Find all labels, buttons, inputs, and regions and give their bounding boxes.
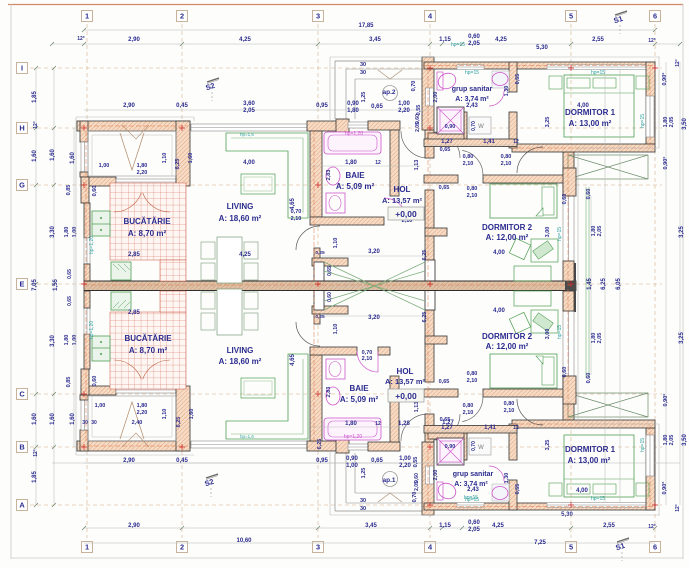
svg-text:2,20: 2,20 [137, 410, 148, 416]
svg-text:W: W [478, 124, 484, 130]
svg-text:A: 13,57 m²: A: 13,57 m² [382, 196, 423, 205]
svg-text:4,65: 4,65 [290, 354, 296, 366]
svg-text:17,85: 17,85 [358, 23, 374, 29]
svg-text:1,25: 1,25 [361, 92, 367, 103]
svg-text:0,65: 0,65 [327, 266, 333, 276]
svg-text:12°: 12° [675, 504, 681, 512]
svg-text:LIVING: LIVING [227, 346, 254, 355]
svg-text:2,90: 2,90 [128, 37, 140, 43]
svg-text:0,25: 0,25 [315, 250, 325, 256]
svg-text:A: 3,74 m²: A: 3,74 m² [455, 96, 489, 103]
svg-text:2: 2 [180, 12, 184, 21]
svg-text:0,60: 0,60 [586, 189, 592, 200]
svg-text:0,70: 0,70 [471, 121, 477, 131]
svg-text:3,45: 3,45 [369, 37, 381, 43]
svg-text:1,10: 1,10 [162, 153, 168, 164]
svg-text:0,55: 0,55 [413, 457, 419, 468]
svg-text:1,00: 1,00 [95, 403, 106, 409]
svg-text:12°: 12° [77, 36, 85, 42]
svg-text:2,05: 2,05 [415, 122, 421, 132]
svg-text:30: 30 [360, 506, 366, 512]
svg-text:6,25: 6,25 [422, 250, 428, 261]
svg-text:12°: 12° [648, 38, 656, 44]
svg-text:1,10: 1,10 [162, 409, 168, 420]
svg-text:0,90°: 0,90° [662, 73, 668, 86]
svg-text:0,85: 0,85 [66, 185, 72, 196]
svg-text:1,45: 1,45 [587, 278, 593, 290]
svg-text:1,00: 1,00 [398, 101, 410, 107]
svg-text:2,90: 2,90 [123, 458, 135, 464]
svg-text:A: 8,70 m²: A: 8,70 m² [129, 346, 168, 355]
svg-text:0,55: 0,55 [515, 74, 521, 85]
svg-text:3,20: 3,20 [368, 315, 380, 321]
svg-text:2,00: 2,00 [433, 470, 439, 481]
svg-text:1,55: 1,55 [53, 279, 59, 291]
svg-text:1,27: 1,27 [441, 139, 453, 145]
svg-text:hp=15: hp=15 [640, 438, 646, 452]
svg-text:30: 30 [360, 498, 366, 504]
svg-text:4,00: 4,00 [493, 250, 505, 256]
svg-text:3,00: 3,00 [545, 329, 551, 340]
svg-text:3,25: 3,25 [545, 117, 551, 128]
svg-text:2,05: 2,05 [669, 435, 675, 446]
svg-text:0,90°: 0,90° [663, 157, 669, 170]
svg-text:0,60: 0,60 [92, 376, 98, 387]
svg-text:3,00: 3,00 [545, 227, 551, 238]
svg-text:1,60: 1,60 [70, 152, 76, 164]
svg-text:12: 12 [513, 139, 519, 145]
svg-text:1,00: 1,00 [399, 456, 411, 462]
svg-text:2,10: 2,10 [463, 410, 474, 416]
svg-text:+0,00: +0,00 [395, 209, 417, 219]
svg-text:12°: 12° [33, 449, 39, 457]
svg-text:hp=15: hp=15 [451, 42, 465, 48]
svg-text:A: 12,00 m²: A: 12,00 m² [486, 342, 529, 351]
svg-text:4,25: 4,25 [492, 523, 504, 529]
svg-text:2,10: 2,10 [362, 356, 373, 362]
svg-text:6,05: 6,05 [616, 278, 622, 290]
svg-text:1,80: 1,80 [137, 403, 148, 409]
svg-text:HOL: HOL [394, 185, 411, 194]
svg-text:0,90°: 0,90° [662, 482, 668, 495]
svg-text:hp=1,6: hp=1,6 [240, 132, 254, 137]
svg-text:1: 1 [85, 12, 89, 21]
svg-text:2,05: 2,05 [597, 333, 603, 344]
svg-text:A: 13,57 m²: A: 13,57 m² [385, 377, 426, 386]
svg-text:A: 18,60 m²: A: 18,60 m² [219, 357, 262, 366]
svg-text:2,20: 2,20 [399, 463, 411, 469]
svg-text:2,20: 2,20 [398, 108, 410, 114]
svg-text:1,15: 1,15 [439, 523, 451, 529]
svg-text:3,45: 3,45 [365, 523, 377, 529]
svg-text:2,10: 2,10 [504, 408, 515, 414]
svg-text:1,80: 1,80 [64, 227, 70, 238]
svg-text:0,60: 0,60 [468, 520, 480, 526]
svg-text:hp=1,20: hp=1,20 [345, 131, 363, 137]
svg-text:ap.1: ap.1 [382, 477, 395, 484]
svg-text:C: C [19, 390, 25, 399]
svg-text:0,95: 0,95 [316, 103, 328, 109]
svg-text:2,00: 2,00 [433, 92, 439, 103]
svg-text:6: 6 [653, 12, 657, 21]
svg-text:0,65: 0,65 [371, 458, 383, 464]
svg-text:hp=15: hp=15 [557, 227, 563, 241]
svg-text:1,80: 1,80 [64, 335, 70, 346]
svg-text:2,05: 2,05 [414, 481, 420, 491]
svg-text:hp=15: hp=15 [591, 496, 605, 502]
svg-text:2,85: 2,85 [128, 252, 140, 258]
svg-text:A: 12,00 m²: A: 12,00 m² [486, 233, 529, 242]
svg-text:A: 5,09 m²: A: 5,09 m² [340, 395, 379, 404]
svg-text:3,25: 3,25 [545, 440, 551, 451]
svg-text:12: 12 [513, 425, 519, 431]
svg-text:BAIE: BAIE [345, 171, 365, 180]
svg-text:3,60: 3,60 [243, 101, 255, 107]
svg-text:hp=15: hp=15 [557, 325, 563, 339]
svg-text:1,30: 1,30 [504, 86, 510, 97]
svg-text:A: 3,74 m²: A: 3,74 m² [454, 481, 488, 488]
svg-text:0,80: 0,80 [501, 154, 512, 160]
svg-text:G: G [19, 181, 25, 190]
svg-text:1,60: 1,60 [50, 413, 56, 425]
svg-text:0,60: 0,60 [92, 186, 98, 197]
svg-text:1: 1 [85, 543, 89, 552]
svg-text:0,45: 0,45 [176, 458, 188, 464]
svg-text:1,80: 1,80 [137, 163, 148, 169]
svg-text:1,13: 1,13 [414, 160, 420, 171]
svg-text:5: 5 [569, 12, 573, 21]
svg-text:0,70: 0,70 [291, 209, 302, 215]
svg-text:2,05: 2,05 [468, 527, 480, 533]
svg-text:1,27: 1,27 [441, 425, 453, 431]
svg-text:I: I [21, 64, 23, 73]
svg-text:2,10: 2,10 [291, 216, 302, 222]
svg-text:4,25: 4,25 [495, 37, 507, 43]
svg-text:BUCĂTĂRIE: BUCĂTĂRIE [124, 334, 172, 343]
svg-text:+0,00: +0,00 [395, 391, 417, 401]
svg-text:5,30: 5,30 [536, 45, 548, 51]
svg-text:1,00: 1,00 [72, 335, 78, 346]
svg-text:2,43: 2,43 [466, 103, 478, 109]
svg-text:0,90: 0,90 [445, 124, 456, 130]
svg-text:A: 18,60 m²: A: 18,60 m² [219, 214, 262, 223]
svg-text:2,90: 2,90 [123, 103, 135, 109]
svg-text:0,65: 0,65 [67, 296, 73, 306]
svg-text:0,90: 0,90 [445, 444, 456, 450]
svg-text:0,60: 0,60 [586, 373, 592, 384]
svg-text:7,25: 7,25 [534, 540, 546, 546]
svg-text:0,80: 0,80 [463, 403, 474, 409]
svg-text:DORMITOR 1: DORMITOR 1 [565, 445, 616, 454]
svg-text:1,25: 1,25 [361, 468, 367, 479]
svg-text:E: E [20, 280, 25, 289]
svg-text:6,25: 6,25 [601, 278, 607, 290]
svg-text:3: 3 [316, 12, 320, 21]
svg-text:3: 3 [316, 543, 320, 552]
svg-text:DORMITOR 2: DORMITOR 2 [482, 332, 533, 341]
svg-text:3,50: 3,50 [682, 434, 688, 446]
svg-text:2,20: 2,20 [137, 170, 148, 176]
svg-text:2,83: 2,83 [326, 387, 332, 398]
svg-text:1,10: 1,10 [333, 324, 339, 335]
svg-text:DORMITOR 2: DORMITOR 2 [482, 223, 533, 232]
svg-text:30: 30 [91, 420, 97, 426]
svg-text:1,60: 1,60 [32, 413, 38, 425]
svg-text:1,60: 1,60 [70, 413, 76, 425]
svg-text:0,80: 0,80 [504, 401, 515, 407]
svg-text:A: 8,70 m²: A: 8,70 m² [128, 229, 167, 238]
svg-text:0,60: 0,60 [562, 194, 568, 205]
svg-text:6: 6 [653, 543, 657, 552]
svg-text:B: B [19, 443, 24, 452]
svg-text:12: 12 [375, 421, 381, 427]
svg-text:0,65: 0,65 [67, 269, 73, 279]
svg-text:2: 2 [180, 543, 184, 552]
svg-text:0,65: 0,65 [440, 147, 451, 153]
svg-text:12: 12 [375, 160, 381, 166]
svg-text:BUCĂTĂRIE: BUCĂTĂRIE [123, 217, 171, 226]
svg-text:3,50: 3,50 [682, 118, 688, 130]
svg-text:5: 5 [569, 543, 573, 552]
svg-text:A: 13,00 m²: A: 13,00 m² [569, 119, 612, 128]
svg-text:3,20: 3,20 [368, 249, 380, 255]
svg-text:3,25: 3,25 [679, 226, 685, 238]
svg-text:2,05: 2,05 [243, 108, 255, 114]
svg-text:hp=15: hp=15 [465, 70, 479, 76]
svg-text:0,65: 0,65 [439, 379, 450, 385]
svg-text:0,60: 0,60 [327, 292, 333, 302]
svg-text:4,65: 4,65 [290, 198, 296, 210]
svg-text:0,60: 0,60 [562, 367, 568, 378]
svg-text:0,70: 0,70 [412, 492, 418, 503]
svg-text:2,55: 2,55 [592, 37, 604, 43]
svg-text:30: 30 [360, 70, 366, 76]
svg-text:1,28: 1,28 [398, 421, 410, 427]
svg-text:LTDBRAIL: LTDBRAIL [331, 281, 369, 290]
svg-text:0,90: 0,90 [346, 456, 358, 462]
svg-text:hp=1,20: hp=1,20 [89, 236, 95, 254]
svg-text:2,55: 2,55 [603, 523, 615, 529]
svg-text:0,65: 0,65 [439, 185, 450, 191]
svg-text:1,00: 1,00 [99, 163, 110, 169]
svg-text:0,80: 0,80 [463, 154, 474, 160]
svg-text:hp=15: hp=15 [591, 70, 605, 76]
svg-text:4,25: 4,25 [239, 252, 251, 258]
svg-text:6,25: 6,25 [176, 417, 182, 428]
svg-text:6,25: 6,25 [422, 312, 428, 323]
svg-text:0,70: 0,70 [411, 81, 417, 92]
svg-text:grup sanitar: grup sanitar [452, 86, 493, 93]
svg-text:2,05: 2,05 [669, 117, 675, 128]
svg-text:0,95: 0,95 [316, 458, 328, 464]
svg-text:A: A [19, 501, 25, 510]
svg-text:7,05: 7,05 [32, 279, 38, 291]
svg-text:2,40: 2,40 [132, 420, 143, 426]
svg-text:grup sanitar: grup sanitar [453, 471, 494, 478]
svg-text:1,60: 1,60 [32, 150, 38, 162]
svg-text:2,10: 2,10 [501, 161, 512, 167]
svg-text:1,00: 1,00 [346, 463, 358, 469]
svg-text:0,55: 0,55 [515, 484, 521, 495]
svg-text:2,10: 2,10 [467, 193, 478, 199]
svg-text:0,85: 0,85 [66, 377, 72, 388]
svg-text:6,25: 6,25 [175, 159, 181, 170]
svg-text:hp=1,6: hp=1,6 [240, 434, 254, 439]
svg-text:12°: 12° [675, 59, 681, 67]
svg-text:hp=15: hp=15 [464, 495, 478, 501]
svg-text:hp=15: hp=15 [640, 114, 646, 128]
svg-text:DORMITOR 1: DORMITOR 1 [565, 108, 616, 117]
svg-text:0,80: 0,80 [467, 186, 478, 192]
svg-text:1,60: 1,60 [188, 153, 194, 164]
svg-text:2,83: 2,83 [326, 170, 332, 181]
svg-text:1,10: 1,10 [333, 238, 339, 249]
svg-text:0,25: 0,25 [315, 314, 325, 320]
svg-text:0,55: 0,55 [416, 105, 422, 116]
svg-text:12°: 12° [648, 524, 656, 530]
svg-text:1,85: 1,85 [32, 91, 38, 103]
svg-text:1,41: 1,41 [484, 425, 496, 431]
svg-text:12°: 12° [33, 121, 39, 129]
svg-text:ap.2: ap.2 [382, 89, 395, 96]
svg-text:0,90°: 0,90° [663, 394, 669, 407]
svg-text:2,10: 2,10 [463, 161, 474, 167]
svg-text:1,80: 1,80 [345, 421, 357, 427]
svg-text:1,80: 1,80 [345, 160, 357, 166]
svg-text:2,90: 2,90 [128, 523, 140, 529]
svg-text:10,60: 10,60 [236, 538, 252, 544]
svg-text:hp=1,20: hp=1,20 [344, 434, 362, 440]
svg-text:0,90: 0,90 [347, 101, 359, 107]
svg-text:1,30: 1,30 [504, 473, 510, 484]
svg-text:0,65: 0,65 [440, 417, 451, 423]
svg-text:HOL: HOL [397, 367, 414, 376]
svg-text:0,80: 0,80 [467, 371, 478, 377]
svg-text:LIVING: LIVING [227, 202, 254, 211]
svg-text:BAIE: BAIE [349, 384, 369, 393]
svg-text:2,85: 2,85 [128, 310, 140, 316]
svg-text:1,60: 1,60 [189, 409, 195, 420]
svg-text:hp=1,20: hp=1,20 [89, 321, 95, 339]
svg-text:3,30: 3,30 [50, 335, 56, 347]
svg-text:1,00: 1,00 [72, 227, 78, 238]
svg-text:1,60: 1,60 [50, 149, 56, 161]
svg-text:0,45: 0,45 [176, 103, 188, 109]
svg-text:1,80: 1,80 [347, 108, 359, 114]
svg-text:0,65: 0,65 [371, 104, 383, 110]
svg-text:H: H [19, 124, 24, 133]
svg-text:3,30: 3,30 [50, 226, 56, 238]
svg-text:4,00: 4,00 [243, 160, 255, 166]
svg-text:1,41: 1,41 [483, 139, 495, 145]
svg-text:4,25: 4,25 [239, 37, 251, 43]
svg-text:A: 13,00 m²: A: 13,00 m² [568, 456, 611, 465]
svg-text:3,25: 3,25 [679, 332, 685, 344]
svg-text:30: 30 [82, 420, 88, 426]
svg-text:4,00: 4,00 [576, 488, 588, 494]
svg-text:4,00: 4,00 [493, 308, 505, 314]
svg-text:1,85: 1,85 [32, 471, 38, 483]
svg-text:6,25: 6,25 [317, 439, 323, 450]
svg-text:0,70: 0,70 [471, 441, 477, 451]
svg-text:W: W [478, 445, 484, 451]
svg-text:30: 30 [360, 62, 366, 68]
svg-text:A: 5,09 m²: A: 5,09 m² [336, 182, 375, 191]
svg-text:2,05: 2,05 [468, 41, 480, 47]
svg-text:0,60: 0,60 [468, 34, 480, 40]
svg-text:1,13: 1,13 [414, 402, 420, 413]
svg-text:2,10: 2,10 [467, 378, 478, 384]
svg-text:1,15: 1,15 [439, 37, 451, 43]
svg-text:2,05: 2,05 [597, 226, 603, 237]
